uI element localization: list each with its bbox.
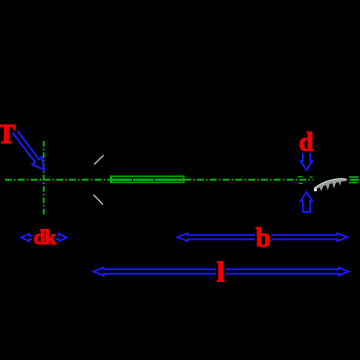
- dashed cone edge upper: [94, 155, 104, 164]
- d dimension arrow lower (hollow, points up): [301, 192, 313, 212]
- nock outline at right end: [349, 177, 359, 183]
- rod outline (barrel): [111, 176, 184, 182]
- rod end ticks near d dimension: [298, 177, 313, 184]
- d dimension arrow upper (hollow, points down): [301, 151, 313, 170]
- force arrow T (hollow): [13, 130, 44, 170]
- rod center line: [112, 179, 183, 181]
- rod left cap: [110, 176, 112, 183]
- svg-text:b: b: [256, 223, 271, 253]
- l dimension double arrow (hollow): [93, 268, 348, 276]
- svg-text:T: T: [0, 119, 16, 149]
- axis mask under feather: [313, 176, 349, 184]
- svg-text:l: l: [217, 257, 225, 289]
- vertical centerline at crossing point: [43, 141, 45, 216]
- dashed cone edge lower: [94, 195, 104, 205]
- feather sketch: [313, 178, 348, 191]
- horizontal centerline axis: [5, 178, 359, 180]
- b dimension double arrow (hollow): [177, 233, 347, 241]
- feather white tip dot: [314, 188, 317, 191]
- svg-text:d: d: [299, 128, 314, 157]
- dk dimension arrow right (hollow, points right): [55, 234, 66, 242]
- svg-text:dk: dk: [34, 225, 57, 249]
- dk dimension arrow left (hollow, points left): [21, 234, 34, 242]
